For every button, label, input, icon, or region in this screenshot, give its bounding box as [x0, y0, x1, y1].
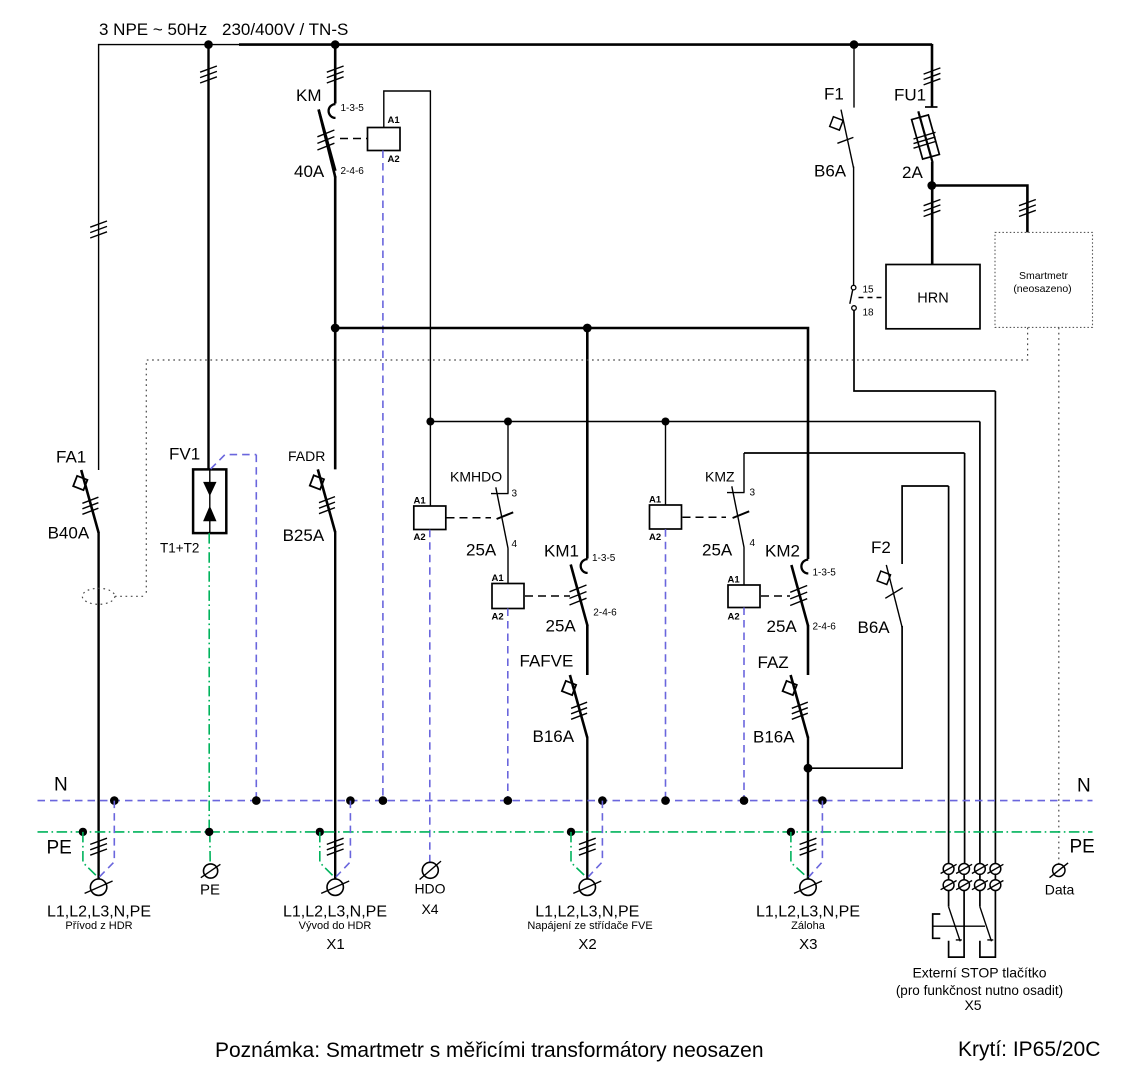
3-phase mark above terminal X3	[800, 838, 817, 855]
svg-text:KM: KM	[296, 86, 322, 105]
svg-text:FA1: FA1	[56, 448, 86, 467]
wire PE (green dash-dot)	[38, 831, 1093, 833]
terminal PE	[201, 864, 221, 878]
svg-text:Data: Data	[1045, 882, 1075, 898]
breaker FADR	[310, 469, 335, 532]
svg-text:FAZ: FAZ	[758, 653, 789, 672]
smartmetr box (dotted, not installed)	[995, 232, 1093, 327]
svg-text:N: N	[1077, 776, 1091, 797]
node N-X3	[818, 796, 827, 805]
svg-text:2-4-6: 2-4-6	[341, 166, 365, 177]
svg-text:(pro funkčnost nutno osadit): (pro funkčnost nutno osadit)	[896, 983, 1063, 998]
wire line3 mid	[334, 176, 337, 469]
3-phase mark smartmetr supply	[1019, 200, 1036, 217]
coil KMZ	[650, 505, 682, 529]
svg-text:B25A: B25A	[283, 526, 325, 545]
svg-text:1-3-5: 1-3-5	[813, 568, 837, 579]
svg-text:3 NPE ~ 50Hz: 3 NPE ~ 50Hz	[99, 20, 207, 39]
svg-text:230/400V / TN-S: 230/400V / TN-S	[222, 20, 348, 39]
wire F1 drop	[853, 44, 855, 108]
svg-text:FU1: FU1	[894, 86, 926, 105]
svg-text:40A: 40A	[294, 162, 325, 181]
3-phase mark line1	[90, 221, 107, 238]
svg-text:KM1: KM1	[544, 542, 579, 561]
wire N (dashed blue)	[38, 800, 1093, 802]
svg-text:FAFVE: FAFVE	[520, 652, 574, 671]
svg-text:25A: 25A	[546, 617, 577, 636]
svg-text:L1,L2,L3,N,PE: L1,L2,L3,N,PE	[47, 904, 151, 921]
node 2A-smartmetr	[927, 181, 936, 190]
wire KMZ coil A2 to N (dashed blue)	[665, 529, 667, 800]
svg-text:B16A: B16A	[533, 727, 575, 746]
node PE-X	[79, 828, 87, 836]
svg-text:X3: X3	[799, 936, 817, 953]
wire line1 lower	[97, 532, 99, 879]
contactor KM main contact	[317, 104, 335, 178]
node bus-line3	[331, 40, 340, 49]
wire KM1 to FAFVE	[586, 625, 589, 675]
wire KMHDO contact upper	[507, 422, 509, 494]
dotted data line to Data terminal	[1058, 328, 1060, 865]
wire KMZ contact upper from STOP loop	[743, 453, 745, 493]
svg-text:X2: X2	[578, 936, 596, 953]
wire KM2 branch lower	[807, 737, 809, 880]
3-phase mark FU1	[924, 68, 941, 85]
svg-text:A2: A2	[728, 612, 740, 623]
aux contact KMHDO	[491, 487, 513, 548]
wires between X5 terminal rows	[949, 874, 996, 880]
svg-text:A1: A1	[728, 575, 741, 586]
node PE-X1	[316, 828, 324, 836]
svg-text:A1: A1	[649, 495, 662, 506]
svg-text:2A: 2A	[902, 163, 923, 182]
wire PE pigtail X3	[791, 832, 807, 877]
svg-text:PE: PE	[1070, 837, 1095, 858]
dotted measuring loop to CT	[146, 328, 1027, 597]
relay contact blade	[850, 290, 853, 304]
aux contact KMZ	[727, 486, 749, 547]
svg-text:Napájení ze střídače FVE: Napájení ze střídače FVE	[527, 920, 652, 932]
svg-text:KMZ: KMZ	[705, 469, 735, 485]
wire KM coil A2 to N (dashed blue)	[382, 151, 384, 801]
svg-text:2-4-6: 2-4-6	[593, 608, 617, 619]
svg-text:HRN: HRN	[917, 291, 948, 307]
wire KM2 to FAZ	[807, 626, 810, 676]
wire mid bus	[335, 328, 808, 559]
wire to F2 (horizontal)	[808, 626, 902, 768]
svg-text:A2: A2	[388, 154, 400, 165]
terminal X5-2b	[956, 880, 972, 891]
node control-KMZcoil	[662, 418, 670, 426]
wire FV1 to N (dashed blue)	[211, 455, 257, 801]
svg-text:4: 4	[512, 539, 518, 550]
terminal X2 (Napajeni ze stridace FVE)	[573, 879, 601, 895]
terminal X5-4a	[987, 864, 1003, 875]
wire line3 upper	[334, 44, 337, 104]
relay HRN box	[886, 265, 980, 329]
node N-FV1	[252, 796, 261, 805]
svg-text:B6A: B6A	[814, 162, 847, 181]
3-phase mark below 2A	[924, 200, 941, 217]
wire KM1 branch lower	[586, 737, 588, 880]
svg-text:Záloha: Záloha	[791, 920, 826, 932]
svg-text:1-3-5: 1-3-5	[341, 103, 365, 114]
wire FV1 to PE (green)	[208, 533, 210, 832]
relay contact HRN 18	[852, 306, 857, 311]
terminal X (Privod z HDR)	[85, 879, 113, 895]
terminal X5-3a	[972, 864, 988, 875]
svg-text:4: 4	[750, 538, 756, 549]
terminal X5-4b	[987, 880, 1003, 891]
wire top bus L1,L2,L3	[99, 44, 240, 46]
wire line1 upper	[98, 44, 100, 470]
svg-text:FV1: FV1	[169, 445, 200, 464]
svg-text:B16A: B16A	[753, 728, 795, 747]
svg-text:3: 3	[750, 488, 756, 499]
svg-text:3: 3	[512, 489, 518, 500]
breaker F2	[877, 565, 903, 627]
mechanical link KM coil to contact (dashed)	[340, 138, 367, 140]
breaker F1	[830, 110, 854, 168]
wire PE line to PE terminal (green)	[209, 832, 211, 865]
coil KM1	[492, 584, 524, 609]
terminal X4 (HDO)	[420, 861, 441, 879]
node FAZ-F2	[804, 764, 813, 773]
svg-text:25A: 25A	[767, 617, 798, 636]
svg-text:Přívod z HDR: Přívod z HDR	[65, 920, 132, 932]
svg-text:HDO: HDO	[414, 881, 445, 897]
svg-text:18: 18	[863, 308, 875, 319]
node PE-X2	[567, 828, 575, 836]
node N-KM2coil	[740, 796, 749, 805]
svg-text:Smartmetr: Smartmetr	[1019, 270, 1069, 282]
svg-text:Externí STOP tlačítko: Externí STOP tlačítko	[912, 965, 1046, 981]
svg-text:25A: 25A	[466, 541, 497, 560]
wire KM2 coil A2 to N (dashed blue)	[743, 608, 745, 801]
contactor KM1 main contact	[570, 559, 588, 626]
wire N pigtail X2	[588, 801, 602, 877]
breaker FAZ	[783, 675, 808, 738]
mechanical link KMZ coil to contact (dashed)	[683, 516, 727, 518]
svg-text:1-3-5: 1-3-5	[592, 553, 616, 564]
svg-text:PE: PE	[47, 838, 72, 859]
STOP button actuator	[933, 914, 941, 938]
svg-text:Poznámka: Smartmetr s měřicími: Poznámka: Smartmetr s měřicími transform…	[215, 1039, 764, 1062]
node PE-X3	[787, 828, 795, 836]
svg-text:X1: X1	[326, 936, 344, 953]
coil KMHDO	[414, 506, 446, 530]
svg-text:B40A: B40A	[48, 524, 90, 543]
svg-text:A2: A2	[649, 532, 661, 543]
node PE-FV1	[205, 828, 213, 836]
svg-text:X5: X5	[964, 997, 981, 1013]
3-phase mark above terminal X	[90, 838, 107, 855]
wire N pigtail X (dashed blue)	[100, 801, 115, 877]
node N-X1	[346, 796, 355, 805]
STOP button contact 1	[949, 890, 965, 957]
relay contact HRN 15	[851, 285, 856, 290]
terminal X1 (Vyvod do HDR)	[321, 879, 349, 895]
svg-text:L1,L2,L3,N,PE: L1,L2,L3,N,PE	[535, 904, 639, 921]
node N-KMZcoil	[661, 796, 670, 805]
wire KMHDO contact to KM1 coil	[507, 548, 509, 583]
wire KMHDO coil feed	[429, 422, 431, 507]
terminal X5-3b	[972, 880, 988, 891]
svg-text:F2: F2	[871, 538, 891, 557]
breaker FA1	[73, 470, 98, 533]
svg-text:A1: A1	[414, 496, 427, 507]
node N-KM1coil	[504, 796, 513, 805]
node bus-line2	[204, 40, 213, 49]
fuse FU1	[925, 106, 938, 108]
svg-text:KM2: KM2	[765, 542, 800, 561]
wire KM coil A1 to control line	[384, 91, 431, 422]
node control-KMcoil	[426, 418, 434, 426]
3-phase mark line2	[200, 66, 217, 83]
wire KMZ coil feed	[665, 422, 667, 506]
3-phase mark line3	[327, 66, 344, 83]
svg-text:A2: A2	[414, 532, 426, 543]
wire N pigtail X1	[336, 801, 350, 877]
current transformer (dotted, not installed)	[82, 588, 115, 604]
svg-text:A1: A1	[492, 573, 505, 584]
svg-text:L1,L2,L3,N,PE: L1,L2,L3,N,PE	[283, 904, 387, 921]
svg-text:KMHDO: KMHDO	[450, 469, 502, 485]
wire to smartmetr supply	[932, 186, 1028, 233]
terminal X5-2a	[956, 864, 972, 875]
svg-text:FADR: FADR	[288, 448, 325, 464]
wire STOP loop to KMZ (horizontal)	[744, 453, 965, 864]
terminal X3 (Zaloha)	[794, 879, 822, 895]
mechanical link KM1 coil to contact (dashed)	[525, 595, 570, 597]
3-phase mark above terminal X2	[579, 838, 596, 855]
wire KM1 coil A2 to N (dashed blue)	[507, 609, 509, 801]
wire fuse to HRN	[931, 162, 934, 265]
svg-text:F1: F1	[824, 85, 844, 104]
mechanical link KMHDO coil to contact (dashed)	[447, 517, 492, 519]
wire PE pigtail X2	[571, 832, 587, 877]
svg-text:N: N	[54, 775, 68, 796]
terminal X5-1a	[941, 864, 957, 875]
node line3-midbus	[331, 324, 340, 333]
wire N pigtail X3	[809, 801, 823, 877]
wire PE pigtail X1	[320, 832, 335, 877]
svg-text:Vývod do HDR: Vývod do HDR	[299, 920, 372, 932]
wire line2	[207, 44, 209, 470]
svg-text:L1,L2,L3,N,PE: L1,L2,L3,N,PE	[756, 904, 860, 921]
svg-text:B6A: B6A	[858, 618, 891, 637]
svg-text:(neosazeno): (neosazeno)	[1013, 283, 1071, 295]
3-phase mark above terminal X1	[327, 838, 344, 855]
contactor KM2 main contact	[790, 560, 808, 627]
svg-text:Krytí: IP65/20C: Krytí: IP65/20C	[958, 1038, 1100, 1061]
svg-text:A2: A2	[492, 612, 504, 623]
wire PE pigtail X (green)	[83, 832, 98, 877]
wire F2 top to STOP loop	[902, 486, 949, 864]
terminal Data	[1050, 863, 1069, 878]
breaker FAFVE	[562, 675, 587, 738]
svg-text:25A: 25A	[702, 541, 733, 560]
svg-text:15: 15	[863, 285, 875, 296]
svg-text:T1+T2: T1+T2	[160, 541, 199, 556]
wire line3 lower	[334, 531, 336, 879]
node bus-F1	[850, 40, 859, 49]
STOP button contact 2	[980, 890, 996, 957]
wire control line	[430, 421, 980, 423]
wire KMHDO coil A2 to terminal X4 (dashed blue)	[429, 530, 431, 864]
mechanical link KM2 coil to contact (dashed)	[761, 595, 790, 597]
mechanical link HRN (dashed)	[859, 297, 887, 299]
node N-X2	[598, 796, 607, 805]
wire F1 to HRN contact	[853, 167, 855, 286]
node N-X	[110, 796, 119, 805]
wire FU1 drop	[931, 44, 934, 107]
svg-text:2-4-6: 2-4-6	[813, 622, 837, 633]
terminal X5-1b	[941, 880, 957, 891]
coil KM	[368, 128, 401, 151]
STOP button mechanical link	[933, 925, 985, 927]
svg-text:X4: X4	[421, 901, 438, 917]
surge protector FV1	[193, 469, 226, 533]
node midbus-KM1	[583, 324, 592, 333]
node control-KMHDO	[504, 418, 512, 426]
wire HRN contact to STOP loop	[854, 310, 995, 863]
wire KMZ contact to KM2 coil	[743, 547, 745, 585]
wire KM1 branch upper	[586, 328, 589, 559]
svg-text:PE: PE	[200, 882, 220, 899]
coil KM2	[728, 585, 760, 608]
node N-KMcoil	[379, 796, 388, 805]
svg-text:A1: A1	[388, 115, 401, 126]
